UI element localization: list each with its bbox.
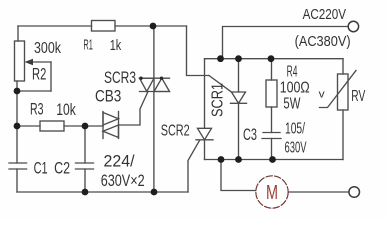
wire riser to AC terminal xyxy=(223,27,350,59)
svg-text:R1: R1 xyxy=(83,38,93,54)
wire R4 to C3 xyxy=(271,107,273,133)
svg-text:100Ω: 100Ω xyxy=(280,80,310,97)
svg-text:R2: R2 xyxy=(32,66,46,84)
wire C1 to bottom rail xyxy=(16,169,18,192)
wire R2 wiper return right edge xyxy=(50,62,52,91)
wire motor to terminal xyxy=(288,191,349,193)
svg-text:R3: R3 xyxy=(30,101,44,119)
wire cathode rail xyxy=(205,159,344,161)
svg-text:RV: RV xyxy=(351,88,365,105)
svg-text:R4: R4 xyxy=(287,64,298,81)
svg-text:SCR3: SCR3 xyxy=(104,69,136,87)
thyristor SCR1 xyxy=(238,59,240,92)
svg-text:630V: 630V xyxy=(285,140,307,157)
node rail R4 xyxy=(268,55,275,62)
potentiometer R2 xyxy=(15,41,25,81)
capacitor C2 leads xyxy=(84,126,86,192)
node top wire / SCR3 xyxy=(150,23,157,30)
svg-text:C3: C3 xyxy=(243,126,257,144)
junction blob SCR3 bar left xyxy=(139,77,142,80)
svg-text:AC220V: AC220V xyxy=(303,6,347,23)
thyristor SCR2 xyxy=(204,59,206,128)
varistor RV xyxy=(338,74,349,110)
wire SCR2 gate riser xyxy=(188,141,200,193)
wire C3 to cathode rail xyxy=(271,139,273,160)
svg-text:1k: 1k xyxy=(110,38,122,54)
terminal motor return xyxy=(349,187,360,198)
capacitor C1 xyxy=(9,163,27,169)
svg-text:CB3: CB3 xyxy=(95,88,121,106)
wire bottom rail xyxy=(17,191,188,193)
wire pot top stub xyxy=(17,26,19,41)
wire SCR1 gate diagonal xyxy=(209,76,232,93)
wire trigger branch down to SCR1 gate lead xyxy=(187,26,210,76)
svg-text:10k: 10k xyxy=(56,101,76,119)
wire R2 wiper return bottom xyxy=(17,90,51,92)
svg-text:C1: C1 xyxy=(34,159,48,178)
wire RV bottom vertical xyxy=(342,110,344,160)
node rail SCR2 riser xyxy=(217,55,224,62)
svg-text:M: M xyxy=(266,182,278,204)
svg-text:5W: 5W xyxy=(283,96,300,113)
junction blob SCR3 bar right xyxy=(160,77,163,80)
wire top-left horizontal to R1 xyxy=(18,25,92,27)
node rail SCR1 xyxy=(235,55,242,62)
svg-text:C2: C2 xyxy=(54,159,70,178)
capacitor C2 xyxy=(76,163,94,169)
triac SCR3 xyxy=(140,78,170,91)
svg-text:v: v xyxy=(319,89,326,101)
svg-text:105/: 105/ xyxy=(285,121,305,138)
wire left vertical rail xyxy=(16,81,18,163)
node SCR3 bottom xyxy=(151,189,158,196)
capacitor C3 xyxy=(262,133,281,139)
node R3 left xyxy=(14,123,21,130)
svg-text:630V×2: 630V×2 xyxy=(101,171,145,190)
wire motor branch xyxy=(221,160,256,191)
diac CB3 xyxy=(103,112,119,139)
wire R3 to diac CB3 xyxy=(64,125,103,127)
motor M xyxy=(256,176,288,208)
svg-text:SCR2: SCR2 xyxy=(161,123,190,140)
node cathode rail SCR1 xyxy=(235,156,242,163)
svg-text:300k: 300k xyxy=(34,40,62,57)
svg-text:(AC380V): (AC380V) xyxy=(295,33,351,50)
wiper arrow of R2 xyxy=(32,61,51,63)
resistor R4 xyxy=(271,59,273,80)
wire SCR3 cathode vertical xyxy=(153,92,155,193)
node R3/C2 xyxy=(82,123,89,130)
wire R3 row left xyxy=(17,125,40,127)
terminal AC220V xyxy=(348,21,358,31)
wire R1 to SCR3 top corner xyxy=(115,25,187,27)
svg-text:SCR1: SCR1 xyxy=(210,83,227,117)
node R2 bottom xyxy=(14,88,21,95)
wire top rail xyxy=(205,58,344,60)
svg-text:224/: 224/ xyxy=(104,152,135,171)
node cathode rail motor xyxy=(218,156,225,163)
resistor R3 xyxy=(40,121,64,131)
resistor R1 xyxy=(92,21,116,32)
wire diac to SCR3 gate xyxy=(119,92,149,126)
wire SCR3 anode vertical xyxy=(153,26,155,78)
node C2 bottom xyxy=(82,189,89,196)
wiper arrowhead xyxy=(25,59,34,65)
node cathode rail C3 xyxy=(269,156,276,163)
